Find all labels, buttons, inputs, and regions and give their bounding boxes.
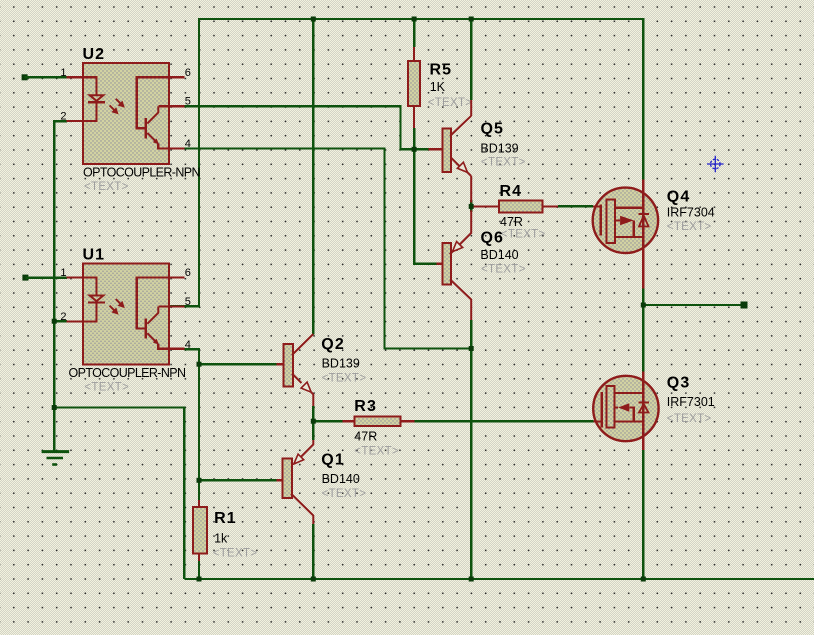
svg-text:<TEXT>: <TEXT>	[481, 263, 526, 275]
wire Q4 source column	[642, 289, 644, 372]
transistor Q1	[277, 440, 314, 524]
wire Q6 base column	[414, 149, 437, 263]
wire bottom rail	[184, 578, 814, 580]
wire Q1 collector to bottom rail	[312, 524, 314, 579]
mosfet Q3	[593, 372, 658, 451]
wire output branch	[643, 304, 740, 306]
svg-text:4: 4	[185, 138, 191, 150]
resistor R3	[343, 417, 415, 426]
svg-text:<TEXT>: <TEXT>	[667, 413, 712, 425]
wire R3 left	[313, 420, 342, 422]
optocoupler U2	[67, 63, 185, 164]
svg-text:OPTOCOUPLER-NPN: OPTOCOUPLER-NPN	[69, 366, 187, 380]
svg-text:<TEXT>: <TEXT>	[501, 229, 546, 241]
svg-text:R5: R5	[430, 62, 453, 79]
svg-text:1: 1	[60, 267, 66, 279]
svg-text:<TEXT>: <TEXT>	[213, 548, 258, 560]
svg-text:Q2: Q2	[321, 336, 345, 353]
svg-text:U2: U2	[83, 46, 106, 63]
wire Q5 collector	[470, 18, 472, 100]
wire Q6 collector to bottom rail	[470, 320, 472, 579]
wire VCC column to Q2 collector	[312, 18, 314, 335]
svg-text:<TEXT>: <TEXT>	[428, 97, 473, 109]
wire Q3 source to bottom rail	[642, 450, 644, 579]
wire R1 bottom to rail	[198, 561, 200, 579]
svg-text:R1: R1	[214, 510, 237, 527]
junction output node	[641, 303, 646, 308]
wire U2 pin 1	[25, 76, 67, 78]
svg-text:<TEXT>: <TEXT>	[84, 181, 129, 193]
terminal input 2 (U1)	[22, 275, 28, 281]
svg-text:1K: 1K	[430, 80, 446, 94]
svg-text:BD139: BD139	[322, 357, 360, 371]
junction U2 pin4 / Q6 collector	[469, 346, 474, 351]
origin marker crosshair	[707, 156, 724, 173]
junction top rail / x313 column	[311, 17, 316, 22]
svg-text:BD140: BD140	[322, 472, 360, 486]
junction R4 node	[469, 204, 474, 209]
U2 pin numbers	[60, 67, 190, 150]
svg-text:6: 6	[185, 267, 191, 279]
wire ground node to bottom rail	[54, 408, 184, 580]
svg-text:6: 6	[185, 67, 191, 79]
wire U2 pin 4 to Q6 collector	[184, 149, 471, 349]
svg-text:Q6: Q6	[481, 230, 505, 247]
junction Q2 base node	[197, 362, 202, 367]
svg-text:<TEXT>: <TEXT>	[481, 156, 526, 168]
wire U2 pin 5 to Q5 base	[184, 106, 428, 149]
mosfet Q4	[593, 180, 658, 289]
svg-text:R3: R3	[354, 398, 377, 415]
junction Q1 base node	[197, 478, 202, 483]
transistor Q5	[429, 100, 472, 203]
wire R5 bottom to node	[413, 128, 415, 150]
svg-text:47R: 47R	[354, 430, 377, 444]
wire U1 pin 2	[54, 320, 67, 322]
junction Q6 collector rail	[469, 577, 474, 582]
svg-text:1k: 1k	[214, 532, 228, 546]
wire VCC top rail	[199, 18, 643, 20]
wire Q2 emitter node	[312, 406, 314, 440]
ground	[42, 452, 70, 465]
svg-text:Q3: Q3	[667, 375, 691, 392]
svg-text:U1: U1	[83, 246, 106, 263]
terminal output	[741, 302, 748, 309]
resistor R1	[193, 500, 207, 561]
U1 pin numbers	[60, 267, 190, 351]
junction Q3 source rail	[641, 577, 646, 582]
svg-text:1: 1	[60, 67, 66, 79]
svg-text:Q4: Q4	[667, 189, 691, 206]
svg-text:<TEXT>: <TEXT>	[667, 221, 712, 233]
svg-text:47R: 47R	[500, 215, 523, 229]
svg-text:4: 4	[185, 339, 191, 351]
wire R4 to Q4 gate	[558, 205, 593, 207]
svg-text:<TEXT>: <TEXT>	[84, 382, 129, 394]
junction U1 pin 2	[52, 319, 57, 324]
svg-text:OPTOCOUPLER-NPN: OPTOCOUPLER-NPN	[83, 166, 201, 180]
svg-text:<TEXT>: <TEXT>	[322, 488, 367, 500]
wire U1 pin 4 to bias column	[184, 349, 199, 500]
svg-text:2: 2	[60, 111, 66, 123]
junction top rail / Q5 collector	[469, 17, 474, 22]
junction ground node	[52, 405, 57, 410]
junction R1 bottom rail	[197, 577, 202, 582]
wire R3 to Q3 gate	[415, 420, 594, 422]
transistor Q2	[277, 334, 314, 406]
wire Q1 base	[199, 479, 277, 481]
wire VCC to Q4 drain column	[642, 18, 644, 180]
resistor R4	[474, 201, 558, 213]
junction R3 left node	[311, 419, 316, 424]
junction Q1 collector rail	[311, 577, 316, 582]
svg-text:<TEXT>: <TEXT>	[322, 372, 367, 384]
junction top rail / R5	[412, 17, 417, 22]
svg-text:BD139: BD139	[480, 141, 518, 155]
svg-text:5: 5	[185, 96, 191, 108]
svg-text:<TEXT>: <TEXT>	[354, 446, 399, 458]
svg-text:R4: R4	[500, 183, 523, 200]
wire R4 node stub	[470, 200, 472, 212]
svg-text:2: 2	[60, 311, 66, 323]
optocoupler U1	[67, 264, 185, 365]
wire U1 pin 1	[25, 276, 67, 278]
svg-text:Q5: Q5	[481, 121, 505, 138]
resistor R5	[408, 47, 420, 128]
wire left VCC column to U1 pin 5	[169, 18, 199, 306]
svg-text:Q1: Q1	[321, 452, 345, 469]
transistor Q6	[437, 210, 472, 320]
terminal input 1 (U2)	[22, 74, 28, 80]
junction R5 bottom / Q5 base	[412, 147, 417, 152]
wire Q2 base	[199, 363, 277, 365]
svg-text:5: 5	[185, 296, 191, 308]
svg-text:IRF7304: IRF7304	[667, 206, 715, 220]
svg-text:IRF7301: IRF7301	[667, 395, 715, 409]
svg-text:BD140: BD140	[480, 248, 518, 262]
wire U2 pin 2 to ground column	[54, 121, 67, 451]
wire R5 top	[413, 18, 415, 47]
